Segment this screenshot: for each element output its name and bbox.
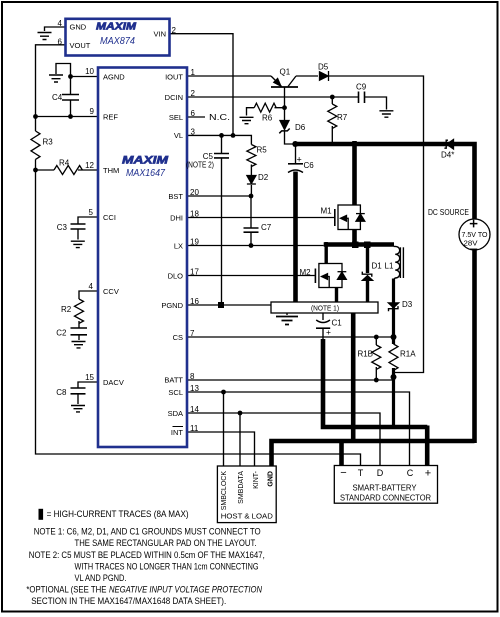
svg-text:+: +: [297, 155, 302, 165]
svg-text:C7: C7: [261, 223, 272, 232]
svg-text:R4: R4: [59, 159, 70, 168]
svg-text:VIN: VIN: [153, 30, 166, 39]
svg-text:SMART-BATTERY: SMART-BATTERY: [353, 483, 417, 493]
svg-text:CS: CS: [173, 333, 183, 342]
svg-text:R1B: R1B: [357, 350, 373, 359]
svg-text:Q1: Q1: [280, 68, 291, 77]
svg-text:DCIN: DCIN: [165, 93, 183, 102]
svg-text:R1A: R1A: [400, 350, 416, 359]
svg-text:C9: C9: [356, 83, 367, 92]
svg-text:+: +: [326, 327, 331, 337]
svg-text:MAXIM: MAXIM: [122, 155, 169, 167]
svg-text:−: −: [340, 467, 346, 479]
svg-text:SMBCLOCK: SMBCLOCK: [221, 471, 228, 511]
svg-text:28V: 28V: [464, 241, 478, 248]
svg-text:VL AND PGND.: VL AND PGND.: [75, 573, 127, 584]
svg-text:LX: LX: [174, 241, 183, 250]
svg-text:DHI: DHI: [170, 213, 183, 222]
svg-text:7: 7: [190, 329, 195, 338]
svg-text:SEL: SEL: [169, 113, 183, 122]
svg-text:D2: D2: [258, 173, 269, 182]
svg-text:STANDARD CONNECTOR: STANDARD CONNECTOR: [340, 493, 431, 503]
svg-text:SCL: SCL: [168, 388, 183, 397]
svg-text:BATT: BATT: [164, 375, 183, 384]
svg-text:C6: C6: [304, 161, 315, 170]
svg-text:6: 6: [191, 109, 196, 118]
svg-text:M2: M2: [300, 268, 312, 277]
svg-text:*OPTIONAL (SEE THE: *OPTIONAL (SEE THE: [26, 585, 106, 596]
svg-text:2: 2: [191, 89, 196, 98]
svg-text:D5: D5: [318, 63, 329, 72]
svg-text:PGND: PGND: [161, 301, 183, 310]
svg-text:C3: C3: [57, 223, 68, 232]
svg-text:INT: INT: [171, 428, 184, 437]
svg-text:R6: R6: [262, 114, 273, 123]
svg-text:+: +: [425, 468, 431, 480]
svg-text:13: 13: [190, 384, 199, 393]
svg-text:GND: GND: [70, 23, 87, 32]
svg-text:D6: D6: [295, 123, 306, 132]
svg-text:N.C.: N.C.: [209, 113, 230, 122]
svg-text:20: 20: [190, 188, 199, 197]
svg-text:IOUT: IOUT: [165, 72, 183, 81]
svg-text:M1: M1: [321, 207, 333, 216]
svg-text:R3: R3: [43, 138, 54, 147]
svg-text:D4*: D4*: [441, 151, 454, 160]
svg-text:HOST & LOAD: HOST & LOAD: [221, 512, 274, 521]
svg-text:L1: L1: [385, 262, 394, 271]
svg-text:SECTION IN THE MAX1647/MAX1648: SECTION IN THE MAX1647/MAX1648 DATA SHEE…: [31, 596, 226, 607]
svg-text:C2: C2: [56, 329, 67, 338]
svg-text:12: 12: [85, 161, 94, 170]
svg-text:SDA: SDA: [168, 409, 183, 418]
svg-text:11: 11: [190, 424, 199, 433]
svg-text:DLO: DLO: [168, 271, 184, 280]
svg-text:GND: GND: [267, 471, 274, 487]
svg-text:THM: THM: [103, 166, 119, 175]
svg-text:R2: R2: [61, 305, 72, 314]
svg-text:2: 2: [172, 26, 177, 35]
svg-text:T: T: [358, 468, 364, 478]
svg-text:14: 14: [190, 405, 199, 414]
svg-text:REF: REF: [103, 112, 118, 121]
svg-text:MAX1647: MAX1647: [126, 167, 166, 179]
svg-text:D: D: [377, 468, 384, 478]
svg-text:DC SOURCE: DC SOURCE: [428, 208, 469, 217]
svg-text:C1: C1: [332, 319, 343, 328]
svg-text:C: C: [407, 468, 414, 478]
svg-text:5: 5: [89, 208, 94, 217]
svg-text:1: 1: [191, 68, 196, 77]
svg-text:4: 4: [58, 19, 63, 28]
svg-text:17: 17: [190, 268, 199, 277]
svg-text:VOUT: VOUT: [70, 41, 91, 50]
svg-text:4: 4: [89, 282, 94, 291]
svg-text:16: 16: [190, 297, 199, 306]
svg-text:15: 15: [85, 373, 94, 382]
svg-text:9: 9: [90, 107, 95, 116]
svg-text:MAX874: MAX874: [100, 35, 135, 47]
svg-text:DACV: DACV: [103, 378, 124, 387]
svg-text:(NOTE 2): (NOTE 2): [186, 161, 214, 170]
svg-text:8: 8: [190, 372, 195, 381]
svg-text:WITH TRACES NO LONGER THAN 1cm: WITH TRACES NO LONGER THAN 1cm CONNECTIN…: [75, 562, 259, 573]
svg-text:NEGATIVE INPUT VOLTAGE PROTECT: NEGATIVE INPUT VOLTAGE PROTECTION: [109, 585, 262, 596]
svg-text:R7: R7: [337, 113, 348, 122]
svg-text:C8: C8: [56, 388, 67, 397]
svg-text:MAXIM: MAXIM: [96, 22, 137, 33]
svg-text:7.5V TO: 7.5V TO: [462, 232, 489, 239]
svg-text:AGND: AGND: [103, 72, 125, 81]
svg-text:KINT-: KINT-: [253, 470, 260, 489]
svg-text:C4: C4: [52, 93, 63, 102]
svg-text:NOTE 1: C6, M2, D1, AND C1 GR: NOTE 1: C6, M2, D1, AND C1 GROUNDS MUST …: [34, 527, 261, 538]
svg-text:SMBDATA: SMBDATA: [238, 471, 245, 504]
svg-text:18: 18: [190, 210, 199, 219]
svg-text:NOTE 2: C5 MUST BE PLACED WIT: NOTE 2: C5 MUST BE PLACED WITHIN 0.5cm O…: [29, 550, 265, 561]
svg-text:D1: D1: [372, 262, 383, 271]
svg-text:CCV: CCV: [103, 287, 119, 296]
svg-text:D3: D3: [402, 300, 413, 309]
svg-text:3: 3: [191, 127, 196, 136]
svg-text:10: 10: [85, 67, 94, 76]
svg-text:THE SAME RECTANGULAR PAD ON TH: THE SAME RECTANGULAR PAD ON THE LAYOUT.: [75, 538, 257, 549]
svg-text:CCI: CCI: [103, 213, 116, 222]
svg-text:R5: R5: [257, 146, 268, 155]
svg-text:6: 6: [58, 38, 63, 47]
svg-text:BST: BST: [168, 192, 183, 201]
svg-text:= HIGH-CURRENT TRACES (8A MAX): = HIGH-CURRENT TRACES (8A MAX): [47, 509, 189, 520]
svg-text:19: 19: [190, 238, 199, 247]
svg-text:VL: VL: [174, 131, 183, 140]
svg-text:(NOTE 1): (NOTE 1): [311, 306, 339, 313]
